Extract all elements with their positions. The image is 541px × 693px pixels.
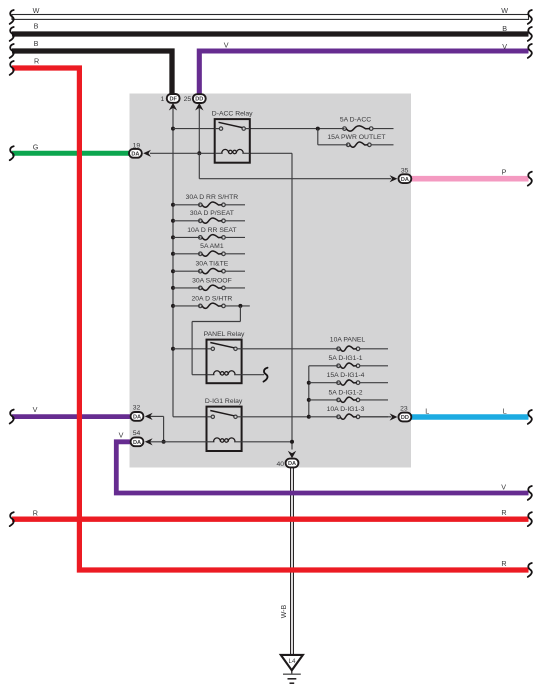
wire B to connector 1 — [12, 51, 172, 95]
svg-text:5A D-IG1-1: 5A D-IG1-1 — [329, 355, 363, 362]
continuation squiggle B right — [528, 27, 532, 41]
svg-text:DA: DA — [131, 151, 139, 157]
fuse 15A PWR OUTLET — [346, 143, 350, 147]
wire G to connector 19 — [12, 151, 131, 156]
wire: ground bus vertical to connector 40 — [291, 153, 293, 449]
fuse 5A D-IG1-1 — [309, 365, 339, 367]
svg-text:30A D RR S/HTR: 30A D RR S/HTR — [186, 194, 239, 201]
node: tap on DF bus for 30A D RR S/HTR — [171, 203, 175, 207]
node: tap on DF bus for 30A S/ROOF — [171, 286, 175, 290]
svg-text:DA: DA — [288, 461, 296, 467]
fuse 30A S/ROOF — [173, 287, 200, 289]
wire: PANEL switch output to 10A PANEL fuse — [242, 348, 339, 350]
svg-text:25: 25 — [184, 96, 192, 103]
ground earth symbol — [291, 670, 293, 674]
node: junction 5A D-ACC / 15A PWR OUTLET — [316, 127, 320, 131]
node: junction DF bus / D-ACC relay switch row — [171, 127, 175, 131]
connector 25 (DD) — [193, 94, 206, 103]
continuation squiggle L right — [528, 410, 532, 424]
svg-text:5A D-IG1-2: 5A D-IG1-2 — [329, 389, 363, 396]
svg-text:DD: DD — [195, 97, 203, 103]
wire: 10A D-IG1-3 output to connector 23 — [360, 416, 391, 418]
connector 54 (DA) — [131, 437, 144, 446]
continuation squiggle R bottom left — [10, 512, 14, 526]
wire: vertical from connector 25 (DD) — [198, 106, 200, 153]
svg-text:19: 19 — [133, 143, 141, 150]
svg-text:20A D S/HTR: 20A D S/HTR — [192, 295, 233, 302]
wire L from connector 23 — [411, 414, 529, 419]
svg-text:DD: DD — [401, 415, 409, 421]
svg-text:10A PANEL: 10A PANEL — [330, 337, 366, 344]
node: junction connector 32/54 leads — [162, 440, 166, 444]
node: tap on DF bus for 10A D RR SEAT — [171, 235, 175, 239]
ground L4 (triangle) — [281, 655, 303, 670]
connector 40 (DA) — [286, 459, 299, 468]
wire P from connector 35 — [411, 176, 529, 182]
connector 19 (DA) — [129, 149, 142, 158]
wire: vertical bus from connector 1 (DF) — [172, 106, 174, 417]
svg-text:35: 35 — [401, 167, 409, 174]
svg-text:W-B: W-B — [281, 604, 288, 618]
svg-text:V: V — [119, 431, 124, 440]
fuse 5A D-IG1-2 — [309, 399, 339, 401]
node: tap on DF bus for PANEL relay switch — [171, 347, 175, 351]
svg-text:15A PWR OUTLET: 15A PWR OUTLET — [327, 134, 385, 141]
svg-text:L: L — [425, 407, 429, 416]
connector 40 (DA) arrow — [288, 451, 296, 459]
svg-text:30A D P/SEAT: 30A D P/SEAT — [190, 210, 234, 217]
wire: relay coil row from connector 19 — [150, 152, 215, 154]
fuse 30A TI&TE — [173, 270, 200, 272]
svg-text:W: W — [33, 6, 40, 15]
node: junction coil return / ground bus — [290, 440, 294, 444]
junction box (driver side J/B) — [130, 94, 412, 468]
node: tap on DF bus for 30A D P/SEAT — [171, 219, 175, 223]
svg-text:G: G — [33, 143, 39, 152]
svg-text:B: B — [34, 22, 39, 31]
node: tap on DF bus for 5A AM1 — [171, 252, 175, 256]
svg-text:30A TI&TE: 30A TI&TE — [196, 261, 229, 268]
continuation squiggle V conn32 left — [10, 410, 14, 424]
connector 19 (DA) arrow — [143, 150, 151, 157]
svg-text:10A D RR SEAT: 10A D RR SEAT — [187, 227, 236, 234]
wire V to connector 32 — [12, 414, 132, 419]
svg-text:23: 23 — [400, 406, 408, 413]
svg-text:L: L — [503, 407, 507, 416]
wire: connector 32 lead — [150, 415, 164, 417]
wire: IG1 fuse bank vertical — [308, 366, 310, 417]
wire: D-IG1 coil output to ground bus — [242, 441, 292, 443]
svg-text:R: R — [34, 56, 39, 65]
connector 35 (DA) arrow — [390, 175, 398, 182]
fuse 20A D S/HTR — [173, 305, 200, 307]
svg-text:D-ACC Relay: D-ACC Relay — [212, 110, 253, 117]
fuse 10A D-IG1-3 — [309, 416, 339, 418]
svg-text:DA: DA — [133, 440, 141, 446]
wire: D-IG1 switch output to IG1 fuse bank — [242, 416, 309, 418]
svg-text:10A D-IG1-3: 10A D-IG1-3 — [327, 406, 365, 413]
wire: branch down to 15A PWR OUTLET — [317, 129, 319, 145]
connector 54 (DA) arrow — [145, 438, 153, 445]
connector 32 (DA) arrow — [145, 413, 153, 420]
fuse 5A AM1 — [173, 253, 200, 255]
continuation squiggle V top right — [528, 44, 532, 58]
relay D-ACC coil — [215, 152, 223, 154]
fuse 30A D P/SEAT — [173, 220, 200, 222]
wire: D-ACC coil output to ground bus — [250, 152, 292, 154]
wire R (bottom, full width) — [12, 517, 529, 522]
continuation squiggle R bottom right — [528, 512, 532, 526]
wire V from connector 54 (bottom) — [116, 442, 528, 493]
wire: path from 20A D S/HTR to PANEL relay coil — [239, 306, 241, 322]
wire: PANEL coil output stub — [242, 374, 264, 376]
wire B (2nd row) — [12, 31, 529, 36]
continuation squiggle on PANEL coil output — [264, 368, 268, 382]
svg-text:V: V — [33, 405, 38, 414]
svg-text:30A S/ROOF: 30A S/ROOF — [192, 277, 232, 284]
connector 23 (DD) — [399, 413, 412, 422]
connector 25 (DD) arrow — [195, 103, 203, 111]
svg-text:54: 54 — [133, 430, 141, 437]
relay D-IG1 Relay — [207, 407, 242, 451]
continuation squiggle W left — [10, 10, 14, 24]
svg-text:DA: DA — [401, 177, 409, 183]
node: tap for 10A D-IG1-3 — [307, 415, 311, 419]
svg-text:V: V — [502, 42, 507, 51]
continuation squiggle B left — [10, 27, 14, 41]
svg-text:D-IG1 Relay: D-IG1 Relay — [205, 398, 243, 405]
svg-text:R: R — [501, 559, 506, 568]
wire: feed into D-IG1 relay switch — [173, 416, 207, 418]
svg-text:B: B — [502, 24, 507, 33]
continuation squiggle W right — [528, 10, 532, 24]
continuation squiggle R lowest right — [528, 563, 532, 577]
wire W-B to ground (double line) — [290, 468, 292, 656]
svg-text:V: V — [501, 483, 506, 492]
wire: D-ACC switch output to fuse junction — [250, 128, 345, 130]
node: junction DD bus / relay coil row — [197, 151, 201, 155]
fuse 10A D RR SEAT — [173, 236, 200, 238]
connector 35 (DA) — [399, 174, 412, 183]
svg-text:R: R — [501, 508, 506, 517]
svg-text:DA: DA — [133, 415, 141, 421]
svg-text:L4: L4 — [289, 658, 296, 665]
connector 1 (DF) — [167, 94, 180, 103]
svg-text:1: 1 — [161, 96, 165, 103]
svg-text:5A D-ACC: 5A D-ACC — [340, 117, 371, 124]
fuse 30A D RR S/HTR — [173, 204, 200, 206]
relay D-ACC Relay — [215, 119, 250, 163]
svg-text:V: V — [224, 41, 229, 50]
relay PANEL coil — [207, 374, 215, 376]
wire W (white, top) — [12, 15, 529, 20]
wire R from top-left down to bottom right — [12, 68, 529, 570]
wire: D-IG1 coil row from connector 54 — [150, 441, 207, 443]
relay PANEL Relay — [207, 340, 242, 384]
node: junction 20A D S/HTR to PANEL relay coil — [238, 304, 242, 308]
node: tap on DF bus for 20A D S/HTR — [171, 304, 175, 308]
svg-text:PANEL Relay: PANEL Relay — [204, 331, 245, 338]
node: tap for 5A D-IG1-2 — [307, 398, 311, 402]
continuation squiggle P right — [528, 172, 532, 186]
svg-text:40: 40 — [276, 461, 284, 468]
wire: branch to connector 35 — [198, 153, 200, 178]
fuse 10A PANEL — [337, 347, 341, 351]
relay PANEL switch contacts — [211, 347, 214, 350]
svg-text:B: B — [34, 39, 39, 48]
svg-text:5A AM1: 5A AM1 — [200, 243, 224, 250]
svg-text:R: R — [33, 509, 38, 518]
svg-text:P: P — [502, 167, 507, 176]
relay D-IG1 coil — [207, 441, 215, 443]
svg-text:W: W — [501, 6, 508, 15]
connector 32 (DA) — [131, 412, 144, 421]
fuse 5A D-ACC — [343, 127, 347, 131]
continuation squiggle G left — [10, 146, 14, 160]
wire V to connector 25 — [199, 51, 528, 95]
node: tap for 15A D-IG1-4 — [307, 381, 311, 385]
wire: PANEL relay switch row — [173, 348, 207, 350]
connector 1 (DF) arrow — [169, 103, 177, 111]
continuation squiggle R top left — [10, 61, 14, 75]
node: tap on DF bus for 30A TI&TE — [171, 269, 175, 273]
relay D-IG1 switch contacts — [211, 415, 214, 418]
svg-text:15A D-IG1-4: 15A D-IG1-4 — [327, 372, 365, 379]
continuation squiggle V bottom right — [528, 486, 532, 500]
continuation squiggle B row3 left — [10, 44, 14, 58]
svg-text:DF: DF — [169, 97, 177, 103]
relay D-ACC switch contacts — [219, 127, 222, 130]
connector 23 (DD) arrow — [390, 413, 398, 420]
fuse 15A D-IG1-4 — [309, 382, 339, 384]
wire: D-ACC relay switch row — [173, 128, 215, 130]
svg-text:32: 32 — [133, 405, 141, 412]
